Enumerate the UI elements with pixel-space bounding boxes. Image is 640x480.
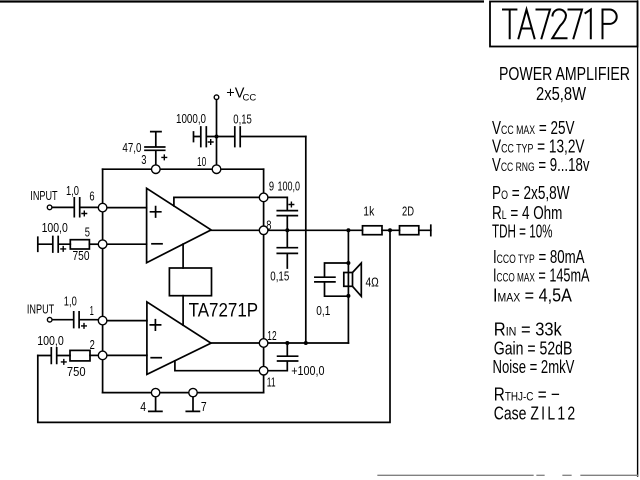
capacitor 100,0 pin9 — [264, 197, 298, 230]
svg-text:1000,0: 1000,0 — [176, 111, 206, 126]
junction speaker upper — [346, 261, 350, 265]
svg-text:100,0: 100,0 — [42, 220, 68, 235]
wire speaker column — [347, 230, 349, 343]
wire node5 to opamp1 — [103, 243, 147, 245]
wire box to opamp2 — [182, 296, 184, 326]
capacitor +100,0 pin12 — [264, 343, 298, 371]
title glyph P — [603, 10, 617, 39]
op-amp U2 triangle — [147, 302, 211, 375]
svg-text:4: 4 — [140, 399, 146, 414]
junction speaker lower — [346, 294, 350, 298]
plus cap100 pin9 — [288, 202, 294, 208]
node 9 — [259, 193, 268, 202]
plus cap47 — [161, 154, 167, 160]
junction 1k-2D — [388, 228, 392, 232]
wire pin column 9-8-12-11 — [263, 169, 265, 392]
junction cap100 pin12 — [285, 341, 289, 345]
plus polarity marks — [60, 139, 294, 365]
svg-text:9: 9 — [269, 179, 274, 194]
plus cap1,0 ch2 — [81, 323, 87, 329]
svg-text:750: 750 — [67, 364, 86, 379]
capacitor 100,0 ch1 — [38, 237, 71, 253]
capacitor 0,15 pin8 — [277, 230, 297, 268]
wire top rail node3-node10 — [103, 168, 264, 170]
svg-text:INPUT: INPUT — [30, 188, 57, 203]
svg-text:1k: 1k — [363, 204, 374, 219]
svg-text:TA7271P: TA7271P — [189, 301, 259, 322]
capacitor 1,0 ch2 — [52, 312, 103, 328]
node 11 — [259, 366, 268, 375]
wire feedback op-amp1 to node 9 — [174, 197, 264, 206]
plus cap100 ch2 — [61, 359, 67, 365]
op-amp U2 plus — [150, 320, 160, 330]
node 10 — [212, 165, 221, 174]
svg-text:CC: CC — [243, 92, 257, 103]
title glyph A — [519, 10, 535, 39]
wire output1 node8 row — [211, 229, 431, 231]
title glyph 7 second — [569, 10, 583, 39]
title glyph 7 — [537, 10, 551, 39]
node 5 — [98, 240, 107, 249]
wire node6 to opamp1 — [103, 207, 147, 209]
svg-text:7: 7 — [201, 399, 207, 414]
title glyph T — [503, 10, 516, 39]
wire feedback op-amp2 to node 11 — [175, 361, 264, 371]
wire left rail — [102, 169, 104, 392]
svg-text:11: 11 — [267, 374, 276, 389]
op-amp U2 minus — [151, 357, 161, 359]
op-amp U1 minus — [152, 243, 162, 245]
ground node7 — [186, 397, 199, 412]
svg-text:1,0: 1,0 — [64, 294, 77, 309]
svg-text:1,0: 1,0 — [66, 183, 79, 198]
node 1 — [98, 316, 107, 325]
wire Vcc drop — [216, 100, 218, 170]
wire output2 node12 row — [211, 342, 348, 344]
svg-text:0,1: 0,1 — [316, 303, 330, 318]
junction pin8 caps — [285, 228, 289, 232]
svg-text:100,0: 100,0 — [278, 178, 301, 193]
svg-text:0,15: 0,15 — [233, 112, 252, 127]
svg-text:2: 2 — [90, 337, 95, 352]
svg-text:10: 10 — [197, 154, 206, 169]
svg-text:6: 6 — [89, 189, 94, 204]
+Vcc terminal — [214, 95, 219, 100]
op-amp U1 triangle — [147, 188, 212, 262]
plus cap1000 — [208, 139, 214, 145]
page bottom border (gray) — [378, 474, 638, 476]
svg-text:POWER AMPLIFIER: POWER AMPLIFIER — [499, 63, 630, 84]
svg-text:2x5,8W: 2x5,8W — [536, 83, 586, 104]
capacitor 1000,0 — [194, 127, 217, 147]
op-amp U1 plus — [151, 207, 161, 217]
ground node4 — [149, 397, 162, 412]
title glyph 1 — [586, 10, 591, 39]
node 7 — [189, 388, 197, 396]
pin node circles — [47, 95, 268, 397]
svg-text:RIN = 33k: RIN = 33k — [494, 318, 562, 339]
resistor 750 ch1 — [70, 240, 89, 249]
node 3 — [152, 165, 161, 174]
capacitor 47,0 — [145, 132, 165, 165]
svg-text:5: 5 — [85, 224, 90, 239]
svg-text:3: 3 — [141, 152, 146, 167]
input terminal ch1 — [47, 205, 52, 210]
IC bias box — [169, 268, 211, 296]
svg-text:0,15: 0,15 — [270, 269, 289, 284]
svg-text:4Ω: 4Ω — [366, 275, 380, 290]
resistor 2D — [400, 226, 419, 235]
svg-text:47,0: 47,0 — [122, 140, 141, 155]
wire box to opamp1 — [182, 244, 184, 268]
svg-text:2D: 2D — [402, 204, 414, 219]
junction speaker top — [346, 228, 350, 232]
svg-text:100,0: 100,0 — [37, 333, 64, 348]
svg-text:12: 12 — [267, 328, 276, 343]
wire right rail down — [38, 230, 390, 422]
svg-text:1: 1 — [90, 303, 94, 318]
input terminal ch2 — [47, 317, 52, 322]
plus cap1,0 ch1 — [81, 211, 87, 217]
wire node2 to opamp2 — [103, 354, 147, 356]
svg-text:750: 750 — [73, 248, 90, 263]
svg-text:8: 8 — [266, 218, 271, 233]
svg-text:INPUT: INPUT — [27, 302, 54, 317]
node 8 — [259, 226, 268, 235]
plus cap100 ch1 — [60, 246, 66, 252]
capacitor 0,1 — [315, 263, 349, 296]
title box — [490, 2, 638, 47]
page right border — [637, 1, 639, 476]
title glyph 2 — [552, 9, 566, 38]
top bar — [0, 0, 484, 2]
capacitor 1,0 ch1 — [52, 198, 103, 217]
svg-text:TDH = 10%: TDH = 10% — [492, 222, 553, 242]
junction Vcc caps — [215, 135, 219, 139]
node 2 — [98, 351, 107, 360]
terminal bar right — [430, 225, 432, 235]
junction coupling out — [304, 341, 308, 345]
resistor 750 ch2 — [70, 350, 90, 361]
wire ground rail — [103, 392, 264, 394]
svg-text:Case ZIL12: Case ZIL12 — [494, 404, 578, 424]
svg-text:+100,0: +100,0 — [291, 363, 324, 378]
resistor 1k — [363, 226, 383, 235]
capacitor 0,15 top — [217, 127, 306, 147]
node 4 — [151, 388, 159, 396]
junction dots — [215, 135, 393, 346]
wire node1 to opamp2 — [103, 320, 147, 322]
node 12 — [259, 339, 268, 348]
wire coupling drop 0,15 to out — [305, 137, 307, 344]
node 6 — [98, 203, 107, 212]
capacitor 100,0 ch2 — [38, 348, 70, 364]
speaker LS1 — [344, 273, 353, 287]
svg-text:Noise = 2mkV: Noise = 2mkV — [493, 357, 575, 378]
